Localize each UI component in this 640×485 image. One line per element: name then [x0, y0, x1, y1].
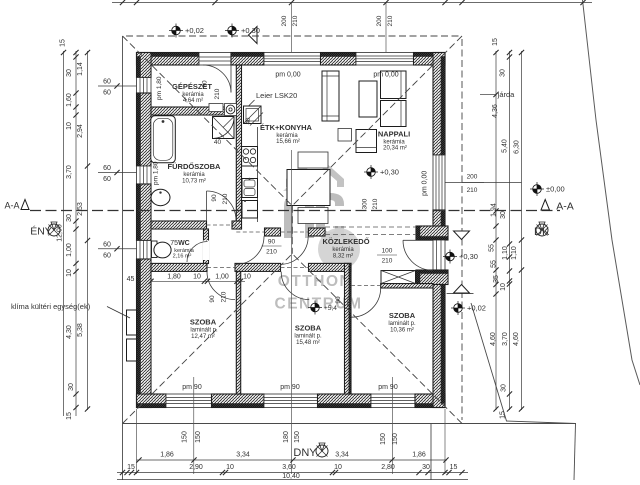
roof hip SE [292, 254, 462, 424]
svg-text:90: 90 [335, 296, 342, 304]
elevation marker +0.30 nappali [367, 168, 376, 177]
svg-text:járda: járda [497, 90, 516, 99]
insulation bottom 4 [415, 404, 445, 408]
svg-text:pm 0,00: pm 0,00 [422, 171, 429, 196]
svg-text:35: 35 [493, 275, 500, 283]
svg-text:+0,30: +0,30 [380, 168, 399, 177]
window left wc 60x60 [137, 241, 152, 260]
svg-text:200: 200 [281, 15, 288, 26]
svg-text:laminált p.: laminált p. [388, 321, 416, 327]
sidewalk right edge [574, 424, 576, 481]
svg-text:12,47 m²: 12,47 m² [191, 334, 215, 340]
svg-text:4,60: 4,60 [513, 332, 520, 346]
insulation left 1 [137, 57, 141, 78]
insulation top 2 [231, 53, 264, 57]
left dim chain line 1 [63, 51, 65, 416]
roof hip NW [123, 36, 293, 206]
wall left segment 4 [137, 259, 152, 408]
svg-text:SZOBA: SZOBA [295, 324, 322, 333]
svg-text:ÉTK+KONYHA: ÉTK+KONYHA [260, 123, 312, 132]
view arrow top [249, 27, 258, 44]
dim 30 bottom left slashes [129, 470, 134, 475]
svg-text:300: 300 [362, 198, 369, 209]
svg-text:20,34 m²: 20,34 m² [383, 146, 407, 152]
window bottom szoba2 180 [264, 394, 318, 408]
wall bottom segment 3 [318, 394, 372, 408]
bathtub [151, 116, 176, 163]
lintel dashed szoba2 door [281, 266, 309, 268]
sofa nappali [322, 71, 339, 121]
svg-text:55: 55 [491, 260, 498, 268]
svg-text:10: 10 [193, 274, 201, 281]
svg-text:180: 180 [283, 431, 290, 443]
svg-text:klíma kültéri egység(ek): klíma kültéri egység(ek) [11, 302, 91, 311]
right window centerline [445, 182, 522, 184]
svg-text:10,36 m²: 10,36 m² [390, 328, 414, 334]
ext line bottom left corner [136, 409, 138, 474]
svg-text:45: 45 [127, 276, 135, 283]
svg-text:SZOBA: SZOBA [190, 318, 217, 327]
svg-text:pm 90: pm 90 [280, 384, 300, 391]
svg-text:90: 90 [268, 239, 276, 246]
svg-text:kerámia: kerámia [332, 247, 354, 253]
axis line nappali window [385, 3, 387, 53]
svg-text:30: 30 [500, 69, 507, 77]
svg-text:210: 210 [387, 15, 394, 26]
door arc szoba1 [207, 272, 235, 300]
svg-text:60: 60 [103, 241, 111, 248]
wall partition szoba2-szoba3 [345, 263, 352, 394]
svg-text:60: 60 [103, 176, 111, 183]
svg-text:5,40: 5,40 [502, 139, 509, 153]
axis line building centre [291, 3, 293, 53]
wall right segment 2 [433, 210, 445, 226]
lintel dashed kitchen door [236, 231, 264, 233]
svg-text:210: 210 [222, 193, 229, 204]
svg-text:200: 200 [376, 15, 383, 26]
door arc entry [403, 240, 433, 270]
eaves line top [126, 35, 459, 37]
insulation bottom 1 [137, 404, 167, 408]
wall szoba3 north [381, 284, 433, 289]
svg-text:60: 60 [103, 79, 111, 86]
insulation top 4 [414, 53, 446, 57]
svg-text:10,73 m²: 10,73 m² [182, 179, 206, 185]
elevation marker +0.02 terrace [454, 304, 463, 313]
entry pier lower [416, 270, 448, 285]
door arc hall opening 2 [280, 236, 308, 264]
wall wc right [204, 229, 209, 264]
svg-text:4,30: 4,30 [66, 325, 73, 339]
lintel dashed szoba1 door [207, 266, 235, 268]
appliance gepeszet [209, 104, 223, 112]
svg-text:SZOBA: SZOBA [389, 311, 416, 320]
svg-text:±0,00: ±0,00 [546, 185, 565, 194]
klima outdoor unit 2 [127, 339, 137, 361]
window axis bottom left [193, 377, 195, 474]
svg-text:150: 150 [182, 431, 189, 443]
svg-text:3,70: 3,70 [66, 165, 73, 179]
svg-text:55: 55 [489, 244, 496, 252]
svg-text:1,10: 1,10 [502, 246, 509, 260]
window 60/60 leader wc [98, 248, 137, 250]
window bottom szoba1 150 [166, 394, 212, 408]
wall top segment 4 [414, 53, 446, 66]
wall partition szoba1-szoba2 [236, 271, 240, 394]
svg-text:210: 210 [382, 258, 393, 265]
door arc szoba3 [351, 288, 381, 318]
svg-text:10: 10 [500, 283, 507, 291]
svg-text:1,10: 1,10 [511, 246, 518, 260]
watermark dot disk [318, 228, 360, 270]
elevation marker +0.30 top [228, 26, 237, 35]
svg-text:100: 100 [382, 248, 393, 255]
svg-text:NAPPALI: NAPPALI [378, 130, 410, 139]
dining chair bottom [298, 208, 328, 224]
toilet wc [152, 241, 158, 258]
svg-text:pm 90: pm 90 [378, 384, 398, 391]
lintel dashed hall opening 2 [281, 231, 309, 233]
armchair nappali 2 [381, 101, 407, 127]
window top kitchen [264, 53, 321, 66]
svg-text:10: 10 [226, 464, 234, 471]
partition acoustic layer [349, 263, 351, 394]
door arc gepeszet entrance [203, 65, 231, 93]
svg-text:30: 30 [66, 69, 73, 77]
svg-text:laminált p.: laminált p. [294, 334, 322, 340]
kitchen sink [242, 179, 258, 198]
door arc szoba2 [281, 272, 309, 300]
door arc wc [187, 242, 208, 263]
svg-text:DNY: DNY [293, 447, 317, 459]
ext line bottom right corner [444, 409, 446, 474]
svg-text:5,38: 5,38 [77, 323, 84, 337]
window bottom szoba3 150 [371, 394, 415, 408]
svg-text:6,30: 6,30 [514, 140, 521, 154]
svg-text:210: 210 [266, 249, 277, 256]
svg-text:90: 90 [209, 295, 216, 303]
svg-text:2,53: 2,53 [77, 202, 84, 216]
insulation left 3 [137, 184, 141, 241]
svg-text:60: 60 [103, 90, 111, 97]
wall furdoszoba south segment 2 [232, 221, 242, 229]
svg-text:200: 200 [467, 174, 478, 181]
svg-text:kerámia: kerámia [183, 172, 205, 178]
hall dim line [151, 280, 245, 282]
bottom dim line C [117, 479, 468, 481]
wall gepeszet/kitchen vertical [236, 65, 241, 229]
svg-text:+0,02: +0,02 [185, 26, 204, 35]
svg-text:2,16 m²: 2,16 m² [173, 254, 192, 260]
watermark O glyph [284, 194, 314, 238]
terrace slab inner edge [430, 424, 432, 481]
svg-text:10: 10 [243, 274, 251, 281]
gutter triangle upper [454, 231, 470, 240]
wall right segment 1 [433, 53, 445, 156]
armchair nappali 3 [356, 130, 377, 153]
svg-text:1,60: 1,60 [66, 93, 73, 107]
left dim chain line 3 [87, 51, 89, 410]
roof ridge [291, 206, 293, 254]
svg-text:10: 10 [334, 464, 342, 471]
bottom dim line B [117, 472, 468, 474]
svg-text:75WC: 75WC [170, 240, 189, 247]
terrace slab bottom edge [123, 423, 577, 425]
svg-text:15: 15 [492, 38, 499, 46]
right dim chain line 2 [509, 51, 511, 410]
watermark C glyph [316, 193, 344, 239]
svg-text:90: 90 [211, 194, 218, 202]
svg-text:KÖZLEKEDŐ: KÖZLEKEDŐ [322, 237, 369, 246]
entry pier upper insulation [416, 226, 420, 240]
side table nappali [338, 129, 352, 142]
dining table [287, 170, 330, 206]
svg-text:1,86: 1,86 [412, 452, 426, 459]
svg-text:60: 60 [103, 165, 111, 172]
right dim chain line 3 [521, 51, 523, 410]
svg-text:pm 90: pm 90 [182, 384, 202, 391]
svg-text:12,00: 12,00 [57, 224, 64, 242]
svg-text:1,00: 1,00 [215, 274, 229, 281]
svg-text:laminált p.: laminált p. [190, 328, 218, 334]
armchair nappali 1 [381, 71, 407, 99]
svg-text:A-A: A-A [556, 201, 574, 213]
washbasin [151, 189, 170, 205]
klima outdoor unit 1 [127, 310, 137, 335]
svg-text:10: 10 [66, 269, 73, 277]
svg-text:150: 150 [195, 431, 202, 443]
door opening top (gepeszet entrance) [199, 53, 231, 66]
section marker triangle right [541, 200, 550, 211]
axis line centre lower [291, 150, 293, 474]
terrace slab left edge [122, 36, 124, 480]
insulation bottom 2 [212, 404, 265, 408]
dining chair top [298, 152, 328, 168]
entry door opening [433, 240, 445, 270]
entry pier lower insulation [416, 270, 420, 285]
svg-text:4,60: 4,60 [490, 332, 497, 346]
svg-text:40: 40 [214, 139, 222, 146]
svg-text:90: 90 [202, 80, 209, 88]
dim jarda leader [480, 94, 496, 96]
svg-text:pm 0,00: pm 0,00 [275, 72, 300, 79]
compass DK [536, 224, 548, 236]
wall bottom segment 4 [415, 394, 445, 408]
elevation marker +0.30 entry [446, 252, 455, 261]
svg-text:150: 150 [294, 431, 301, 443]
wall bottom segment 1 [137, 394, 167, 408]
svg-text:210: 210 [292, 15, 299, 26]
insulation left 2 [137, 93, 141, 166]
svg-text:2,90: 2,90 [189, 464, 203, 471]
svg-text:+5,4: +5,4 [324, 305, 337, 312]
wall left segment 2 [137, 93, 152, 166]
bottom dim line A [137, 459, 448, 461]
lintel dashed bath door [207, 224, 237, 226]
kitchen fridge [242, 201, 258, 219]
svg-text:DK: DK [534, 226, 550, 238]
insulation bottom 3 [318, 404, 372, 408]
insulation top 3 [321, 53, 357, 57]
svg-text:150: 150 [392, 433, 399, 445]
svg-text:FÜRDŐSZOBA: FÜRDŐSZOBA [168, 162, 221, 171]
window left gepeszet 60x60 [137, 78, 152, 94]
svg-text:+0,30: +0,30 [459, 252, 478, 261]
svg-text:3,34: 3,34 [236, 452, 250, 459]
right dim chain ticks [493, 50, 498, 55]
svg-text:15: 15 [60, 39, 67, 47]
insulation right 2 [441, 210, 445, 226]
svg-text:2,94: 2,94 [77, 124, 84, 138]
section marker triangle left [21, 200, 29, 210]
svg-text:30: 30 [422, 464, 430, 471]
svg-text:10: 10 [66, 122, 73, 130]
chimney box hallway [381, 271, 416, 284]
svg-text:210: 210 [372, 198, 379, 209]
svg-text:1,80: 1,80 [167, 274, 181, 281]
elevation marker +5.4 szoba2 [311, 303, 320, 312]
svg-text:15: 15 [450, 464, 458, 471]
svg-text:60: 60 [103, 252, 111, 259]
svg-text:1,14: 1,14 [77, 62, 84, 76]
window top nappali [356, 53, 414, 66]
top dimension line [112, 2, 592, 4]
svg-text:3,34: 3,34 [335, 452, 349, 459]
roof hip NE [292, 36, 462, 206]
svg-text:4,64 m²: 4,64 m² [183, 98, 203, 104]
kitchen counter [257, 127, 259, 222]
right dim chain line 1 [495, 51, 497, 410]
svg-text:210: 210 [347, 296, 354, 307]
svg-text:3,70: 3,70 [502, 332, 509, 346]
svg-text:210: 210 [214, 88, 221, 99]
window 60/60 leader gepeszet [98, 85, 137, 87]
svg-text:30: 30 [66, 214, 73, 222]
svg-text:15,48 m²: 15,48 m² [296, 340, 320, 346]
wall top-left segment [137, 53, 200, 66]
wall furdoszoba south segment 1 [151, 221, 207, 229]
washing machine gepeszet [225, 104, 237, 116]
sidewalk diagonal from entry [471, 303, 576, 424]
kitchen chimney leier lsk20 [244, 106, 262, 124]
svg-text:1,00: 1,00 [66, 243, 73, 257]
svg-text:A-A: A-A [4, 201, 19, 211]
svg-text:30: 30 [501, 384, 508, 392]
svg-text:4,36: 4,36 [492, 104, 499, 118]
wall left segment 3 [137, 184, 152, 241]
svg-text:+0,02: +0,02 [467, 304, 486, 313]
insulation right 3 [441, 285, 445, 404]
svg-text:30: 30 [68, 383, 75, 391]
property boundary line [583, 0, 640, 385]
wall top segment 3 [321, 53, 357, 66]
coffee table nappali [359, 81, 377, 117]
kitchen stove [242, 147, 258, 167]
wall bedrooms north segment 3 [309, 263, 352, 271]
svg-text:40: 40 [246, 117, 252, 124]
shower tray [213, 117, 235, 139]
svg-text:1,94: 1,94 [491, 203, 498, 217]
elevation marker +0.02 top [172, 26, 181, 35]
wall bottom segment 2 [212, 394, 265, 408]
wall left segment 1 [137, 53, 152, 78]
svg-text:210: 210 [467, 187, 478, 194]
window axis bottom right [392, 377, 394, 474]
svg-text:pm 0,00: pm 0,00 [373, 72, 398, 79]
left dim chain ticks [61, 50, 66, 55]
svg-text:10,40: 10,40 [282, 473, 300, 480]
gutter triangle lower [454, 285, 470, 294]
svg-text:3,60: 3,60 [282, 464, 296, 471]
svg-text:2,80: 2,80 [381, 464, 395, 471]
entry pier upper [416, 226, 448, 240]
svg-text:Leier LSK20: Leier LSK20 [256, 91, 297, 100]
watermark house logo [283, 153, 344, 191]
window left furdoszoba 60x60 [137, 166, 152, 184]
svg-text:15: 15 [66, 412, 73, 420]
wall right segment 3 [433, 285, 445, 408]
svg-text:pm 1,80: pm 1,80 [153, 161, 160, 185]
window right nappali 200 [433, 155, 445, 210]
svg-text:15,66 m²: 15,66 m² [276, 139, 300, 145]
insulation right 1 [441, 57, 445, 156]
svg-text:OTTHON: OTTHON [278, 273, 352, 290]
roof hip SW [123, 254, 293, 424]
elevation marker +-0.00 right [533, 185, 542, 194]
svg-text:150: 150 [380, 433, 387, 445]
wall top segment 2 [231, 53, 264, 66]
door arc kitchen [236, 236, 264, 264]
eaves line right [461, 39, 463, 420]
left dim chain line 2 [75, 51, 77, 416]
svg-text:8,32 m²: 8,32 m² [333, 254, 353, 260]
wall kitchen-hall segment 1 [265, 228, 281, 236]
section line A-A [30, 210, 560, 212]
open boundary nappali-hall dashed [325, 226, 416, 228]
wall bedrooms north segment 1 [151, 263, 207, 271]
svg-text:pm 1,80: pm 1,80 [156, 76, 163, 100]
wall gepeszet-furdoszoba [151, 107, 236, 115]
svg-text:15: 15 [500, 411, 507, 419]
szoba3 door lintel dashed [351, 285, 381, 287]
svg-text:30: 30 [500, 211, 507, 219]
insulation left 4 [137, 259, 141, 404]
svg-text:1,86: 1,86 [160, 452, 174, 459]
wall bedrooms north segment 2 [235, 263, 281, 271]
window 60/60 leader furdoszoba [98, 172, 137, 174]
door arc bathroom [207, 191, 237, 221]
svg-text:210: 210 [221, 291, 228, 302]
wall kitchen-hall segment 2 [309, 228, 326, 236]
insulation top-left [137, 53, 200, 57]
